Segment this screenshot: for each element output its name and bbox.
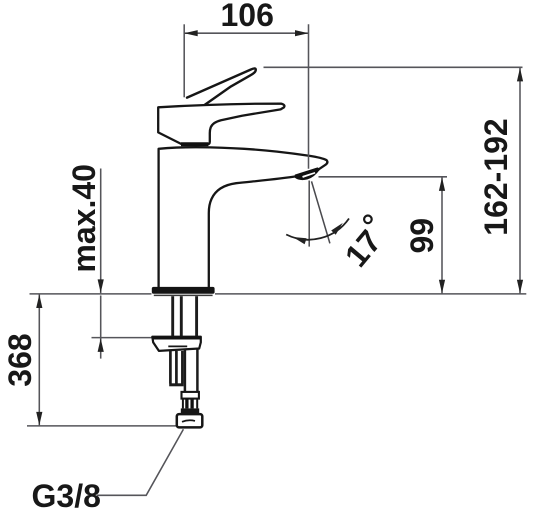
hose ribbed section outline right: [196, 399, 198, 409]
wire: angle stream line 17 degrees: [312, 181, 330, 243]
wire: handle-top reference line: [264, 66, 523, 68]
wire: extension line left of 106 dimension: [183, 24, 185, 97]
mounting nut inner line: [168, 345, 187, 347]
escutcheon thick bottom band: [181, 142, 208, 146]
wire: 99 dimension line: [441, 177, 443, 294]
wire: max.40 dimension line upper part: [100, 169, 102, 294]
hose rib dark right: [190, 399, 193, 409]
wire: max.40 dimension line lower part: [100, 296, 102, 359]
svg-text:162-192: 162-192: [478, 118, 514, 235]
threaded stud left line: [171, 296, 174, 337]
aerator white slit: [303, 173, 316, 177]
wire: nut-top reference line: [92, 337, 153, 339]
node: degree symbol circle: [364, 216, 372, 224]
threaded stud below nut left: [169, 351, 172, 384]
wire: 368 bottom reference line: [27, 425, 177, 427]
aerator outlet: [295, 167, 320, 180]
node: arrow bottom of 162-192: [517, 280, 523, 294]
svg-text:368: 368: [2, 333, 38, 386]
node: arrow top of 99: [439, 177, 445, 191]
node: arrow top of 162-192: [517, 68, 523, 82]
hose rib dark left: [185, 399, 188, 409]
node: arrow left of 106: [184, 30, 198, 36]
hose ribbed section outline left: [182, 399, 184, 409]
node: arrow down of max.40 at countertop: [98, 279, 104, 293]
threaded stud below nut right: [181, 351, 184, 384]
hose collar lower dark: [181, 408, 199, 413]
node: arc arrow right: [331, 223, 343, 235]
node: arrow up of max.40 at nut: [98, 338, 104, 352]
wire: 106 dimension line: [184, 32, 308, 34]
mounting nut: [152, 337, 201, 351]
threaded stud right line: [180, 296, 183, 337]
node: arrow bottom of 368: [36, 412, 42, 426]
wire: angle arc: [286, 219, 349, 240]
wire: G3/8 leader line: [97, 429, 183, 495]
wire: angle vertical reference line: [308, 181, 310, 247]
wire: spout-outlet reference line for 99: [319, 176, 448, 178]
node: arrow right of 106: [295, 30, 309, 36]
wire: 368 dimension line: [38, 294, 40, 426]
node: arc arrow left: [293, 237, 307, 244]
base plate bottom edge: [154, 294, 213, 296]
faucet handle lever: [187, 68, 256, 105]
G3/8 connector nut: [177, 414, 203, 427]
wire: 162-192 dimension line: [519, 67, 521, 293]
G3/8 connector nut inner arc: [182, 420, 195, 422]
svg-text:G3/8: G3/8: [32, 478, 101, 514]
threaded stud below nut middle: [175, 351, 178, 384]
hose collar upper: [182, 392, 199, 399]
supply hose left line below nut: [184, 350, 187, 392]
supply pipe right line: [195, 296, 198, 337]
supply hose right line below nut: [196, 350, 199, 392]
wire: extension line right of 106 dimension: [308, 24, 310, 169]
spout underside thick edge: [296, 169, 319, 176]
svg-text:99: 99: [404, 218, 440, 254]
wire: countertop line right segment: [215, 293, 526, 295]
svg-text:106: 106: [221, 0, 274, 33]
wire: countertop line left segment: [30, 293, 152, 295]
threaded stud end cap: [169, 383, 183, 386]
svg-text:max.40: max.40: [66, 164, 102, 273]
faucet spout body and column: [159, 147, 328, 290]
faucet handle escutcheon body: [158, 104, 284, 145]
node: arrow bottom of 99: [439, 280, 445, 294]
mounting nut thick top edge: [153, 337, 201, 340]
base plate: [152, 287, 215, 294]
node: arrow top of 368: [36, 295, 42, 309]
